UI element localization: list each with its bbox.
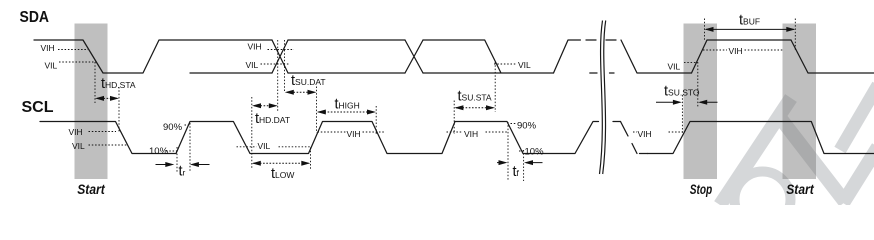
- wire SDA rails + fall merge: [423, 40, 554, 73]
- dotted VIL SCL1: [89, 144, 128, 146]
- svg-text:90%: 90%: [163, 122, 183, 133]
- svg-text:SCL: SCL: [22, 99, 54, 116]
- dotted v tSU.STA left: [453, 101, 455, 135]
- arrow tHD.STA: [95, 96, 119, 101]
- dotted v tHD.DAT/tLOW left: [251, 97, 253, 169]
- dotted v tf right: [523, 150, 525, 181]
- dotted VIH2 SDA: [268, 49, 295, 51]
- wire SDA dashed low at break: [590, 72, 614, 74]
- svg-text:VIL: VIL: [668, 62, 681, 72]
- dotted VIH4 SDA right: [745, 49, 785, 51]
- dotted v tr right: [189, 123, 191, 172]
- dotted VIH SCL1: [89, 131, 117, 133]
- dotted v tSU.STO left: [681, 95, 683, 133]
- svg-text:Start: Start: [786, 182, 814, 197]
- watermark: [720, 85, 874, 228]
- dotted v tSU.STA right: [494, 62, 496, 112]
- svg-text:VIH: VIH: [464, 129, 478, 139]
- svg-text:VIH: VIH: [729, 46, 743, 56]
- start condition gray bar (right): [783, 24, 817, 180]
- svg-text:VIL: VIL: [45, 61, 58, 71]
- break mark SDA/SCL: [600, 21, 606, 175]
- dotted v tSU.DAT right: [316, 87, 318, 134]
- dotted v tf left: [507, 122, 509, 181]
- svg-text:10%: 10%: [525, 147, 545, 158]
- dotted VIH SCL2 right: [363, 131, 385, 133]
- dotted 10% 2: [519, 150, 524, 152]
- svg-text:SDA: SDA: [20, 9, 50, 26]
- dotted VIH SCL4 right: [669, 131, 684, 133]
- arrow tSU.STA: [454, 105, 495, 110]
- dotted VIH1 SDA: [58, 49, 88, 51]
- svg-text:VIH: VIH: [347, 129, 361, 139]
- dotted v tLOW right: [310, 148, 312, 170]
- dotted v tr left: [176, 147, 178, 172]
- dotted VIH SCL3 right: [486, 131, 508, 133]
- svg-text:VIL: VIL: [518, 60, 531, 70]
- svg-text:VIL: VIL: [258, 141, 271, 151]
- svg-text:VIH: VIH: [69, 127, 83, 137]
- wire SCL low + rise + high + right fall: [647, 122, 874, 154]
- SDA waveform: [34, 40, 874, 73]
- svg-text:VIH: VIH: [248, 42, 262, 52]
- dotted VIL1 SDA: [59, 61, 97, 63]
- dotted VIL4 SDA: [684, 61, 698, 63]
- dotted VIH SCL2 left: [318, 131, 346, 133]
- arrow tLOW: [252, 161, 310, 166]
- svg-text:Start: Start: [77, 182, 105, 197]
- wire SDA high + start fall + rise: [34, 40, 272, 73]
- dotted 10% 1: [166, 150, 177, 152]
- level labels: [41, 42, 743, 158]
- dotted v tBUF right: [794, 19, 796, 51]
- arrow tf (outside): [497, 160, 543, 165]
- wire SDA bus rails: [288, 40, 405, 73]
- svg-text:VIH: VIH: [41, 43, 55, 53]
- arrow tSU.STO (outside): [656, 100, 718, 105]
- svg-text:Stop: Stop: [690, 182, 713, 197]
- arrow tBUF: [705, 27, 796, 32]
- wire SCL dashed low: [640, 153, 648, 155]
- stop condition gray bar: [684, 24, 718, 180]
- dotted v crossover VIL: [277, 40, 279, 112]
- wire SDA fall after break: [621, 40, 692, 73]
- wire SDA crossover 1: [272, 40, 288, 73]
- arrow tHD.DAT: [252, 103, 278, 108]
- wire SDA crossover 2: [405, 40, 423, 73]
- dotted v crossover VIH: [284, 40, 286, 93]
- svg-text:10%: 10%: [149, 146, 169, 157]
- dimension arrows: [95, 27, 795, 167]
- dotted VIH SCL4 left: [633, 131, 637, 133]
- dotted VIL SCL2 right: [279, 146, 311, 148]
- wire SDA right fall (start): [791, 40, 874, 73]
- wire SDA rise before break: [554, 40, 581, 73]
- wire SCL dashed fall: [621, 122, 638, 154]
- wire SDA dashed high at break: [586, 39, 616, 41]
- dotted VIL2 SDA: [261, 63, 291, 65]
- dotted reference lines: [58, 19, 795, 182]
- dotted VIH SCL3 left: [447, 131, 464, 133]
- svg-text:VIH: VIH: [638, 129, 652, 139]
- SCL waveform: [40, 122, 874, 154]
- dotted v tHIGH right: [375, 106, 377, 134]
- svg-text:VIL: VIL: [72, 141, 85, 151]
- dotted v tHD.STA left: [94, 62, 96, 103]
- svg-text:VIL: VIL: [246, 60, 259, 70]
- timing labels: [101, 13, 760, 182]
- arrow tHIGH: [317, 110, 376, 115]
- dotted 90% 2: [511, 123, 517, 125]
- dotted VIL SCL2 left: [237, 146, 257, 148]
- arrow tSU.DAT: [285, 90, 317, 95]
- dotted v tSU.STO right: [697, 62, 699, 107]
- wire SCL main: [40, 122, 599, 154]
- wire SDA low rail start: [190, 72, 272, 74]
- dotted v tHD.STA right: [118, 87, 120, 133]
- dotted VIL3 SDA: [494, 63, 517, 65]
- arrow tr (outside): [156, 162, 210, 167]
- svg-text:90%: 90%: [517, 121, 537, 132]
- wire SDA stop rise: [692, 40, 792, 73]
- dotted VIH4 SDA left: [703, 49, 727, 51]
- dotted v tBUF left: [704, 19, 706, 42]
- start condition gray bar (left): [75, 24, 108, 180]
- dotted 90% 1: [185, 124, 190, 126]
- wire SCL dashed at break: [613, 121, 621, 123]
